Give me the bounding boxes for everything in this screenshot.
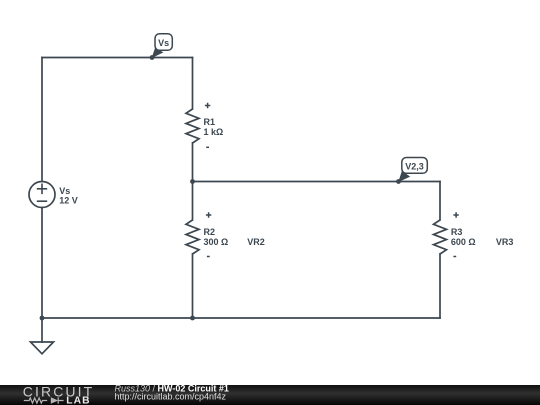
svg-text:R3: R3 [451,227,463,237]
svg-text:12 V: 12 V [59,196,78,206]
wire top horizontal [42,57,193,59]
svg-text:1 kΩ: 1 kΩ [204,127,224,137]
CircuitLab logo resistor-diode glyph [24,397,64,403]
resistor R3 minus sign [453,256,456,258]
svg-text:Vs: Vs [59,186,70,196]
svg-text:600 Ω: 600 Ω [451,237,476,247]
wire R3 top lead [439,182,441,221]
svg-text:Vs: Vs [158,38,169,48]
resistor R2 plus sign [206,212,211,217]
junction node middle (R1/R2/wire) [190,179,195,184]
resistor R1 minus sign [206,146,209,148]
CircuitLab logo diode triangle [51,397,58,404]
wire R1 bottom lead [192,143,194,182]
wire R2 top lead [192,182,194,221]
svg-text:VR2: VR2 [247,237,265,247]
wire R3 bottom lead [439,254,441,318]
resistor R1 zigzag [186,109,199,143]
svg-text:V2,3: V2,3 [405,162,424,172]
wire middle horizontal [193,181,441,183]
resistor R2 zigzag [186,220,199,254]
wire bottom horizontal [42,317,440,319]
wire R2 bottom lead [192,254,194,318]
wire left upper [41,58,43,182]
node flag Vs [150,34,173,60]
wire R1 top lead [192,58,194,110]
svg-text:http://circuitlab.com/cp4nf4z: http://circuitlab.com/cp4nf4z [115,391,227,401]
resistor R1 plus sign [205,103,210,108]
svg-text:R1: R1 [204,117,216,127]
junction node bottom left [40,316,45,321]
svg-text:LAB: LAB [66,396,90,405]
node flag V2,3 [396,158,427,184]
svg-text:R2: R2 [204,227,216,237]
voltage source Vs symbol [29,182,55,208]
ground symbol [31,342,54,354]
junction node bottom middle [190,316,195,321]
svg-text:VR3: VR3 [496,237,514,247]
resistor R3 plus sign [453,212,458,217]
svg-text:300 Ω: 300 Ω [204,237,229,247]
wire left lower [41,208,43,319]
resistor R3 zigzag [434,220,447,254]
resistor R2 minus sign [207,256,210,258]
wire ground lead [41,318,43,342]
